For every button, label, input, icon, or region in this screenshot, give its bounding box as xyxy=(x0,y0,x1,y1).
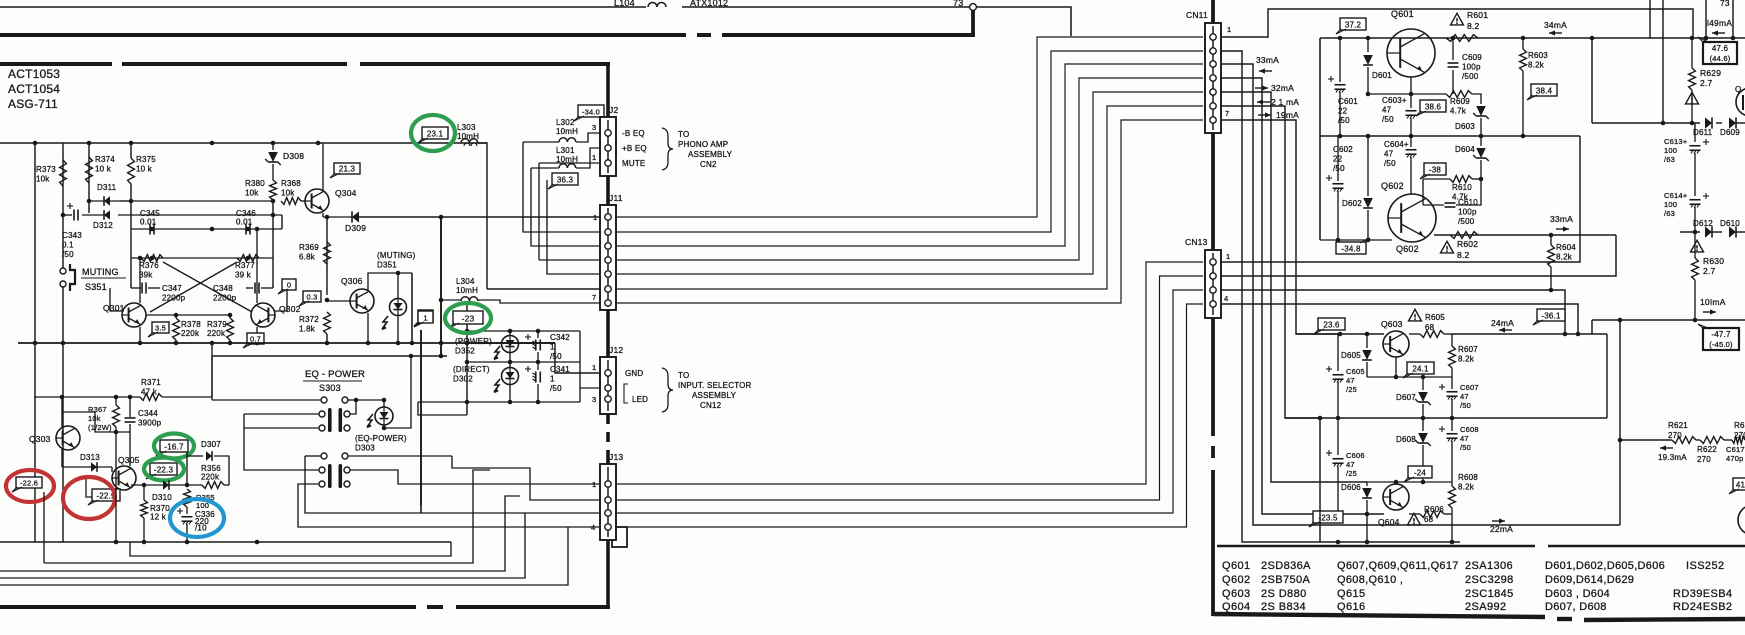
wire xyxy=(212,355,447,357)
wire xyxy=(1367,481,1452,483)
svg-text:/50: /50 xyxy=(1460,443,1471,452)
svg-text:MUTE: MUTE xyxy=(622,159,645,168)
wire xyxy=(1451,334,1453,346)
svg-text:R368: R368 xyxy=(281,179,301,188)
resistor R602 xyxy=(1450,232,1478,239)
wire xyxy=(322,213,324,217)
svg-text:Q602: Q602 xyxy=(1222,574,1251,586)
svg-text:C605: C605 xyxy=(1346,367,1365,376)
wire xyxy=(1320,37,1745,39)
svg-text:R374: R374 xyxy=(95,155,115,164)
label C601 22/50 xyxy=(1338,97,1358,125)
svg-text:7: 7 xyxy=(592,293,596,302)
wire xyxy=(1694,207,1696,232)
svg-text:12 k: 12 k xyxy=(150,513,167,522)
wire L301 to J2 pin 1 xyxy=(576,148,600,168)
svg-text:ACT1054: ACT1054 xyxy=(8,82,60,96)
wire bus J11 pin6 to CN11 pin6 xyxy=(616,106,1203,289)
label R371 47k xyxy=(141,378,161,397)
label R622 270 xyxy=(1697,445,1717,464)
svg-text:36.3: 36.3 xyxy=(557,176,574,185)
wire xyxy=(411,273,413,343)
svg-text:R622: R622 xyxy=(1697,445,1717,454)
wire xyxy=(509,352,511,362)
svg-text:1: 1 xyxy=(423,314,427,323)
svg-text:L301: L301 xyxy=(556,146,575,155)
label R355 100 xyxy=(196,493,215,510)
wire xyxy=(115,397,117,405)
label D602 xyxy=(1342,199,1362,208)
wire xyxy=(186,452,188,485)
svg-text:4.7k: 4.7k xyxy=(1450,107,1467,116)
resistor R372 xyxy=(324,312,331,334)
svg-text:24mA: 24mA xyxy=(1491,318,1514,328)
svg-text:R629: R629 xyxy=(1700,68,1721,78)
svg-text:R376: R376 xyxy=(139,261,159,270)
wire CN11 pin7 down to Q603 base rail xyxy=(1221,120,1340,334)
label GND xyxy=(625,369,643,378)
parts list row Q603 xyxy=(1222,588,1732,600)
svg-text:ASSEMBLY: ASSEMBLY xyxy=(688,150,733,159)
svg-text:L303: L303 xyxy=(457,123,476,132)
svg-text:EQ - POWER: EQ - POWER xyxy=(305,369,365,380)
svg-text:R606: R606 xyxy=(1424,505,1444,514)
wire xyxy=(130,143,132,158)
svg-text:2SC3298: 2SC3298 xyxy=(1465,574,1514,586)
svg-text:8.2k: 8.2k xyxy=(1528,61,1545,70)
label EQ-POWER xyxy=(303,369,365,393)
junction xyxy=(33,141,321,146)
diode D612 xyxy=(1705,226,1712,237)
label C348 2200p xyxy=(213,284,237,303)
wire xyxy=(1409,513,1420,515)
wire J11 pin4 feed xyxy=(539,259,600,261)
svg-text:D313: D313 xyxy=(80,453,100,462)
wire xyxy=(467,330,580,332)
wire xyxy=(1339,92,1341,136)
svg-text:/500: /500 xyxy=(1462,72,1479,81)
junction xyxy=(465,400,541,405)
transistor Q301 xyxy=(122,303,146,327)
wire bus J13 pin2 to CN13 pin2 xyxy=(616,276,1203,500)
svg-text:C610: C610 xyxy=(1458,198,1478,207)
wire xyxy=(418,401,580,403)
label L304 10mH xyxy=(456,277,478,295)
svg-text:(EQ-POWER): (EQ-POWER) xyxy=(355,434,407,443)
svg-text:R378: R378 xyxy=(181,320,201,329)
label R373 10k xyxy=(36,165,56,184)
svg-text:C342: C342 xyxy=(550,333,570,342)
wire bottom long rail 2 xyxy=(44,470,490,563)
wire -22.9 tail xyxy=(86,478,92,497)
pin 1 label J12 xyxy=(592,363,596,372)
svg-text:Q304: Q304 xyxy=(335,188,357,198)
label R377 39k xyxy=(235,261,255,280)
wire xyxy=(397,316,399,343)
wire xyxy=(1606,334,1608,418)
wire J11 pin6 feed xyxy=(487,288,600,290)
svg-text:19.3mA: 19.3mA xyxy=(1658,453,1687,462)
warning triangle R606 xyxy=(1408,513,1421,525)
wire xyxy=(1422,377,1424,390)
label J11 xyxy=(609,193,623,203)
label MUTING D351 xyxy=(377,251,416,270)
svg-text:J13: J13 xyxy=(609,452,623,462)
label Q603 xyxy=(1381,319,1403,329)
wire xyxy=(34,143,36,542)
warning triangle R605 xyxy=(1409,309,1422,321)
wire xyxy=(467,342,555,344)
wire xyxy=(1480,136,1482,146)
value box 3.5 xyxy=(148,322,169,337)
wire xyxy=(61,397,63,427)
capacitor C345 xyxy=(150,224,154,235)
wire xyxy=(272,258,274,288)
label L104 xyxy=(614,0,635,8)
label R375 10k xyxy=(136,155,156,174)
svg-text:R608: R608 xyxy=(1458,473,1478,482)
resistor R377 xyxy=(237,255,259,262)
photo arrow D352 xyxy=(494,346,500,360)
svg-text:D609: D609 xyxy=(1720,128,1740,137)
capacitor C343 xyxy=(67,203,78,221)
wire xyxy=(1451,399,1453,418)
capacitor C344 xyxy=(125,418,136,422)
wire xyxy=(1591,320,1593,334)
wire xyxy=(63,214,72,216)
wire xyxy=(509,362,511,368)
wire xyxy=(1452,38,1454,60)
svg-text:Q601: Q601 xyxy=(1391,9,1414,19)
svg-text:2S D880: 2S D880 xyxy=(1261,588,1307,600)
wire xyxy=(1367,67,1369,94)
wire xyxy=(509,384,511,402)
pin 7 label CN11 xyxy=(1225,109,1229,118)
capacitor C347 xyxy=(142,283,146,294)
svg-text:C608: C608 xyxy=(1460,425,1479,434)
wire R371 right to x212 xyxy=(162,356,212,397)
current label 33mA right xyxy=(1550,214,1573,232)
junction xyxy=(465,360,541,365)
resistor R368 xyxy=(281,198,301,205)
svg-text:D611: D611 xyxy=(1693,128,1713,137)
svg-text:Q601: Q601 xyxy=(1222,560,1251,572)
wire xyxy=(1451,368,1453,377)
wire xyxy=(1592,122,1700,124)
wire xyxy=(186,524,188,542)
svg-text:C603+: C603+ xyxy=(1382,96,1407,105)
warning triangle R601 xyxy=(1451,13,1464,25)
svg-text:2.7: 2.7 xyxy=(1700,78,1712,88)
wire xyxy=(322,143,324,190)
label R369 6.8k xyxy=(299,243,319,262)
node 73 xyxy=(953,0,963,8)
value box -34.8 xyxy=(1336,238,1370,254)
wire xyxy=(1451,441,1453,482)
annotation ellipse green -22.3 xyxy=(144,458,184,481)
resistor R373 xyxy=(60,160,67,186)
current label 21mA xyxy=(1257,97,1299,107)
svg-text:3900p: 3900p xyxy=(138,419,162,428)
svg-text:D307: D307 xyxy=(201,440,221,449)
junction xyxy=(325,298,330,346)
wire xyxy=(383,400,385,407)
svg-text:ASG-711: ASG-711 xyxy=(8,97,58,111)
value box 23.6 xyxy=(1314,318,1345,334)
transistor Q303 xyxy=(56,426,80,450)
wire xyxy=(1522,38,1524,49)
annotation ellipse green 23.1 xyxy=(411,115,455,151)
annotation ellipse green -23 xyxy=(445,303,491,333)
label R368 10k xyxy=(281,179,301,198)
svg-text:D605: D605 xyxy=(1341,351,1361,360)
label C341 1/50 xyxy=(550,365,570,393)
svg-text:270: 270 xyxy=(1734,431,1745,440)
inductor L304 xyxy=(461,297,478,301)
svg-text:2200p: 2200p xyxy=(162,294,186,303)
svg-text:8.2k: 8.2k xyxy=(1556,253,1573,262)
junction xyxy=(465,329,513,334)
left assembly border right vertical xyxy=(606,62,610,609)
label D603 xyxy=(1455,122,1475,131)
wire xyxy=(1736,122,1745,124)
label R378 R379 220k xyxy=(181,320,227,338)
svg-text:47: 47 xyxy=(1346,460,1355,469)
wire CN11 pin2 down xyxy=(1221,51,1320,542)
resistor R378 xyxy=(173,318,180,340)
svg-text:C617: C617 xyxy=(1726,445,1745,454)
svg-text:2SC1845: 2SC1845 xyxy=(1465,588,1514,600)
svg-text:ASSEMBLY: ASSEMBLY xyxy=(692,391,737,400)
label R370 12k xyxy=(150,504,170,522)
svg-text:Q603: Q603 xyxy=(1381,319,1403,329)
svg-text:24.1: 24.1 xyxy=(1412,365,1429,374)
wire xyxy=(1423,178,1450,180)
connector CN11 xyxy=(1205,23,1221,133)
label Q607 partial xyxy=(1735,85,1741,94)
wire S303 to J13 pin2 xyxy=(452,456,600,500)
wire xyxy=(212,399,321,401)
junction xyxy=(150,256,251,261)
svg-text:R369: R369 xyxy=(299,243,319,252)
svg-text:34mA: 34mA xyxy=(1544,20,1567,30)
svg-text:D602: D602 xyxy=(1342,199,1362,208)
wire bottom long rail 5 xyxy=(0,527,568,585)
inductor L302 xyxy=(559,138,576,142)
wire from node 73 xyxy=(976,7,1071,36)
wire xyxy=(62,466,112,468)
pin 3 label J12 xyxy=(592,395,596,404)
current label 19.3mA xyxy=(1658,445,1687,462)
label D601 xyxy=(1372,71,1392,80)
svg-text:/10: /10 xyxy=(195,524,207,533)
value box -24 xyxy=(1404,466,1432,482)
label R630 2.7 xyxy=(1703,256,1724,276)
svg-text:R607: R607 xyxy=(1458,345,1478,354)
svg-text:41.7: 41.7 xyxy=(1736,481,1745,490)
wire CN11 pin5 down to Q604 emitter rail xyxy=(1221,92,1367,482)
svg-text:1: 1 xyxy=(550,375,555,384)
svg-text:270: 270 xyxy=(1697,455,1711,464)
svg-text:220k: 220k xyxy=(181,329,200,338)
svg-text:CN13: CN13 xyxy=(1185,237,1208,247)
wire xyxy=(1716,122,1722,124)
wire cross-coupling diagonal 1 xyxy=(163,262,252,312)
wire xyxy=(537,352,539,362)
svg-text:CN11: CN11 xyxy=(1186,10,1208,20)
svg-text:Q602: Q602 xyxy=(1396,244,1419,254)
wire xyxy=(1736,231,1745,233)
svg-text:D607, D608: D607, D608 xyxy=(1545,601,1607,613)
svg-text:10mH: 10mH xyxy=(556,127,578,136)
svg-text:47.6: 47.6 xyxy=(1712,44,1729,53)
svg-text:C609: C609 xyxy=(1462,53,1482,62)
svg-text:39k: 39k xyxy=(139,271,153,280)
svg-text:R372: R372 xyxy=(299,315,319,324)
svg-text:/25: /25 xyxy=(1346,469,1357,478)
label Q305 xyxy=(118,455,140,465)
wire xyxy=(130,229,132,258)
parts list row Q602 xyxy=(1222,574,1634,586)
wire xyxy=(1319,38,1321,240)
label C345 0.01 xyxy=(140,209,160,227)
wire xyxy=(420,330,422,505)
wire D303 feed xyxy=(356,399,384,401)
wire xyxy=(131,228,282,230)
wire xyxy=(1367,376,1452,378)
svg-text:22: 22 xyxy=(1338,107,1348,116)
svg-text:R380: R380 xyxy=(245,179,265,188)
wire bus J11 pin1 to CN11 pin1 xyxy=(616,37,1203,217)
svg-text:D606: D606 xyxy=(1341,483,1361,492)
wire xyxy=(1451,514,1453,542)
svg-text:23.1: 23.1 xyxy=(427,130,444,139)
label R602 8.2 xyxy=(1457,239,1478,260)
value box 1 muting xyxy=(414,310,433,326)
wire Q303 collector branch to R367 xyxy=(62,412,116,432)
wire xyxy=(327,300,350,302)
label D608 xyxy=(1396,435,1416,444)
current label 32mA xyxy=(1255,83,1294,93)
wire xyxy=(1680,231,1700,233)
resistor R374 xyxy=(86,157,93,183)
wire xyxy=(1296,333,1384,335)
wire xyxy=(0,541,451,543)
value box 21.3 xyxy=(330,163,360,178)
resistor R380 xyxy=(270,180,277,200)
svg-text:CN12: CN12 xyxy=(700,401,722,410)
current label 101mA xyxy=(1700,297,1726,315)
wire xyxy=(1422,404,1424,418)
value box -22.9 xyxy=(88,489,120,505)
wire xyxy=(187,455,203,457)
wire xyxy=(1340,513,1384,515)
wire xyxy=(61,449,63,467)
svg-text:1: 1 xyxy=(1227,25,1231,34)
svg-text:/50: /50 xyxy=(1338,116,1350,125)
wire xyxy=(134,484,202,486)
svg-text:0.1: 0.1 xyxy=(62,241,74,250)
label R610 4.7k xyxy=(1452,183,1472,202)
value box 47.6 (44.6) xyxy=(1698,37,1737,64)
svg-text:/63: /63 xyxy=(1664,155,1675,164)
wire xyxy=(1712,231,1722,233)
svg-text:47: 47 xyxy=(1384,150,1394,159)
wire xyxy=(229,340,231,343)
wire xyxy=(1366,500,1368,514)
wire xyxy=(1705,0,1707,38)
wire xyxy=(537,362,539,370)
junction xyxy=(174,341,233,346)
svg-text:C347: C347 xyxy=(162,284,182,293)
current label 19mA xyxy=(1258,110,1299,120)
svg-text:TO: TO xyxy=(678,371,689,380)
transistor Q302 xyxy=(251,303,275,327)
wire xyxy=(272,143,274,150)
wire xyxy=(129,424,131,432)
diode D610 xyxy=(1729,226,1736,237)
wire xyxy=(1694,153,1696,196)
wire xyxy=(326,334,328,343)
wire xyxy=(256,229,258,303)
label R605 68 xyxy=(1425,313,1445,332)
diode D310 xyxy=(163,480,169,490)
junction xyxy=(150,227,251,232)
value box 36.3 xyxy=(548,173,578,189)
wire xyxy=(62,208,64,268)
junction xyxy=(114,540,260,545)
svg-text:(POWER): (POWER) xyxy=(455,337,492,346)
parts list row Q604 xyxy=(1222,601,1732,613)
wire J11 pin2 feed xyxy=(523,142,600,232)
svg-text:RD39ESB4: RD39ESB4 xyxy=(1673,588,1732,600)
transistor Q603 xyxy=(1383,331,1409,357)
junction xyxy=(1618,318,1698,323)
current label 149mA xyxy=(1707,18,1732,36)
svg-text:R603: R603 xyxy=(1528,51,1548,60)
inductor L301 xyxy=(559,164,576,168)
value box -22.6 xyxy=(12,477,42,492)
capacitor C617 xyxy=(1726,445,1745,463)
svg-text:ACT1053: ACT1053 xyxy=(8,67,60,81)
svg-text:R610: R610 xyxy=(1452,183,1472,192)
label CN13 xyxy=(1185,237,1208,247)
svg-text:2SB750A: 2SB750A xyxy=(1261,574,1311,586)
annotation ellipse green -16.7 xyxy=(154,434,194,459)
label D607 xyxy=(1396,393,1416,402)
svg-text:7: 7 xyxy=(1225,109,1229,118)
capacitor C610 xyxy=(1445,203,1456,207)
svg-text:D601: D601 xyxy=(1372,71,1392,80)
svg-text:D601,D602,D605,D606: D601,D602,D605,D606 xyxy=(1545,560,1665,572)
warning triangle R630 xyxy=(1691,240,1704,252)
warning triangle R629 xyxy=(1686,92,1699,104)
wire bus J13 pin4 to CN13 pin4 xyxy=(616,304,1203,527)
svg-text:2SA1306: 2SA1306 xyxy=(1465,560,1513,572)
label D310 xyxy=(152,493,172,502)
wire xyxy=(1649,0,1651,38)
wire xyxy=(1366,482,1368,486)
svg-text:-36.1: -36.1 xyxy=(1541,312,1561,321)
svg-text:D310: D310 xyxy=(152,493,172,502)
wire J12 GND feed xyxy=(555,343,600,373)
wire xyxy=(1337,382,1339,418)
label D311 xyxy=(97,183,117,192)
svg-text:D604: D604 xyxy=(1455,145,1475,154)
svg-text:GND: GND xyxy=(625,369,643,378)
svg-text:INPUT. SELECTOR: INPUT. SELECTOR xyxy=(678,381,752,390)
photo arrow D302 xyxy=(494,379,500,393)
